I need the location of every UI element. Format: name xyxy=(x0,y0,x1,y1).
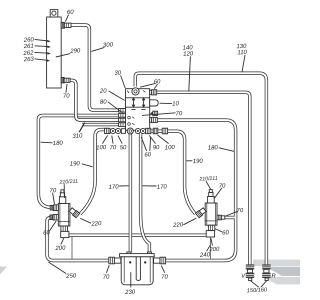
label 100 bottom right xyxy=(158,135,176,151)
svg-text:10: 10 xyxy=(172,101,180,107)
label 70 tank drain xyxy=(63,84,71,100)
label 263 xyxy=(23,57,50,64)
svg-text:300: 300 xyxy=(103,42,114,49)
left cylinder fitting 60 lower left xyxy=(50,214,58,220)
fitting 70 right of 230 xyxy=(154,257,166,264)
label 220 right xyxy=(172,218,196,229)
tank 290 xyxy=(47,17,62,88)
svg-text:200: 200 xyxy=(54,245,66,252)
label 240 xyxy=(199,245,211,259)
coupling V xyxy=(246,264,254,280)
svg-text:70: 70 xyxy=(103,274,111,280)
label 70 left of 230 xyxy=(103,265,111,281)
svg-text:70: 70 xyxy=(161,274,169,280)
label 250 xyxy=(48,262,77,280)
valve bottom port 60 center xyxy=(127,128,133,134)
svg-text:170: 170 xyxy=(108,184,119,191)
label 300 xyxy=(91,42,113,51)
label 110 xyxy=(237,50,248,72)
svg-text:200: 200 xyxy=(208,247,220,254)
svg-text:310: 310 xyxy=(72,133,83,140)
svg-text:70: 70 xyxy=(49,188,57,194)
tank top cap with circle xyxy=(50,10,58,17)
pipe from tank drain to valve port xyxy=(70,80,119,120)
coupling R xyxy=(262,264,270,280)
label 10 xyxy=(160,101,180,107)
svg-text:290: 290 xyxy=(69,48,81,55)
pipe 300 (tank to valve) xyxy=(71,25,119,110)
label 60 left cylinder xyxy=(43,221,56,237)
pipe 250 (long bottom line, left) xyxy=(47,218,109,261)
svg-text:90: 90 xyxy=(153,145,161,151)
svg-text:250: 250 xyxy=(65,273,77,280)
label 70 left cylinder xyxy=(49,188,57,204)
svg-text:263: 263 xyxy=(23,57,35,64)
fitting 70 left of 230 xyxy=(109,257,121,264)
thin drain line right xyxy=(209,237,211,258)
stub to valve port 4 xyxy=(82,123,119,126)
svg-text:70: 70 xyxy=(175,111,183,117)
svg-text:210/211: 210/211 xyxy=(198,176,218,183)
label 261 xyxy=(23,44,51,51)
label 70 right cylinder right xyxy=(226,208,244,216)
pipe 170 left (valve to component 230) xyxy=(129,134,132,253)
label 190 right xyxy=(186,159,203,166)
label 200 right xyxy=(208,238,220,253)
valve fitting for pipe 180 right xyxy=(150,117,158,122)
label 70 valve right xyxy=(142,111,183,117)
label 50 bottom xyxy=(118,136,127,152)
svg-text:60: 60 xyxy=(222,230,230,236)
pipe 180 left (funnel to left cylinder) with run from valve xyxy=(38,116,118,208)
right cylinder fitting 70 right xyxy=(217,215,225,220)
right cylinder bottom fitting 200 xyxy=(206,225,215,237)
valve left ports xyxy=(119,109,126,127)
fitting 60 on tank xyxy=(61,22,71,28)
pipe 190 right (valve to right cylinder 220 fitting) xyxy=(151,131,196,214)
pipe 190 left (funnel to left cylinder 220 fitting) xyxy=(80,130,109,214)
valve fitting 60 top right xyxy=(150,90,157,95)
right cylinder fitting 220 diagonal xyxy=(195,207,206,217)
svg-text:120: 120 xyxy=(183,51,194,58)
label 170 left xyxy=(108,184,128,191)
label 170 right xyxy=(142,184,167,191)
fitting 70 tank drain xyxy=(61,78,70,83)
svg-text:210/211: 210/211 xyxy=(58,179,78,186)
svg-text:80: 80 xyxy=(100,99,108,105)
svg-text:240: 240 xyxy=(199,252,211,259)
label 200 left xyxy=(54,238,66,252)
label 190 left xyxy=(70,161,93,168)
watermark logo bottom right xyxy=(253,260,300,285)
label 30 xyxy=(114,70,125,88)
label 260 xyxy=(23,37,51,44)
label 70 right of 230 xyxy=(161,266,169,281)
svg-text:70: 70 xyxy=(236,208,244,214)
label 60 tank xyxy=(65,10,74,22)
label 80 xyxy=(100,99,123,112)
svg-text:261: 261 xyxy=(23,44,34,51)
svg-text:60: 60 xyxy=(43,230,51,236)
valve fitting 70 right xyxy=(150,111,158,115)
pipe L1 between cylinders xyxy=(69,233,206,236)
right cylinder 210/211 body xyxy=(205,203,217,225)
svg-text:220: 220 xyxy=(90,221,102,228)
label 70 right cylinder top xyxy=(214,183,226,198)
svg-text:110: 110 xyxy=(237,50,248,57)
left cylinder bottom fitting 200 xyxy=(61,226,69,238)
svg-text:190: 190 xyxy=(70,161,81,168)
fittings on pipe to 190 right xyxy=(153,128,167,134)
label 120 xyxy=(183,51,194,91)
svg-text:230: 230 xyxy=(124,289,136,296)
label 210/211 left xyxy=(58,179,78,198)
thin drain line left xyxy=(71,237,73,259)
pipe 120/140 (valve fitting 60 to coupling V) xyxy=(157,92,250,264)
valve internal arrow 2 xyxy=(141,97,145,110)
label 90 bottom right xyxy=(149,135,160,151)
left cylinder cap xyxy=(59,190,65,204)
svg-text:150/160: 150/160 xyxy=(247,287,268,294)
left cylinder fitting 70 upper left xyxy=(50,205,58,211)
svg-text:70: 70 xyxy=(219,183,227,189)
label 100 bottom left xyxy=(96,135,108,151)
svg-text:180: 180 xyxy=(53,141,64,148)
svg-text:220: 220 xyxy=(172,222,184,229)
svg-text:60: 60 xyxy=(144,152,152,158)
valve top circle fitting 30 xyxy=(132,88,139,95)
label 180 left xyxy=(41,141,64,148)
right cylinder cap xyxy=(208,190,215,203)
valve block 10 xyxy=(126,89,150,131)
svg-text:100: 100 xyxy=(96,145,107,152)
label 290 xyxy=(56,48,81,57)
watermark fragment bottom left xyxy=(0,267,7,275)
label 60 right cylinder xyxy=(215,229,230,237)
label 60 valve xyxy=(140,79,161,89)
pipe 180 right (valve to right cylinder, then down into pipe 240) xyxy=(157,120,235,260)
label 180 right xyxy=(208,145,235,152)
svg-text:50: 50 xyxy=(120,145,128,151)
svg-text:20: 20 xyxy=(99,88,108,94)
label 60 bottom center xyxy=(141,137,152,159)
branch to right cylinder fitting 70 xyxy=(225,216,235,219)
label 220 left xyxy=(80,218,102,227)
label 310 xyxy=(72,123,84,140)
component 230 xyxy=(120,252,155,285)
pipe 170 right (valve to component 230) xyxy=(141,134,150,253)
label 70 bottom left xyxy=(109,136,117,152)
valve tab 10 xyxy=(150,100,159,106)
valve internal arrow 1 xyxy=(131,97,135,110)
label 20 xyxy=(99,88,125,100)
pipe 110/130 (valve top circle to coupling R) xyxy=(135,73,266,265)
label 210/211 right xyxy=(198,176,218,190)
svg-text:100: 100 xyxy=(165,145,176,152)
svg-text:190: 190 xyxy=(193,159,204,166)
left cylinder 210/211 body xyxy=(58,203,70,226)
svg-text:180: 180 xyxy=(208,145,219,152)
label 230 xyxy=(124,272,136,296)
label 262 xyxy=(22,50,51,57)
valve bottom ports right group xyxy=(135,128,151,133)
label 150/160 xyxy=(247,281,268,295)
svg-text:170: 170 xyxy=(157,184,168,191)
left cylinder fitting 220 diagonal xyxy=(69,207,80,217)
svg-text:70: 70 xyxy=(63,93,71,99)
svg-text:70: 70 xyxy=(109,145,117,151)
valve bottom ports left group xyxy=(105,128,126,133)
